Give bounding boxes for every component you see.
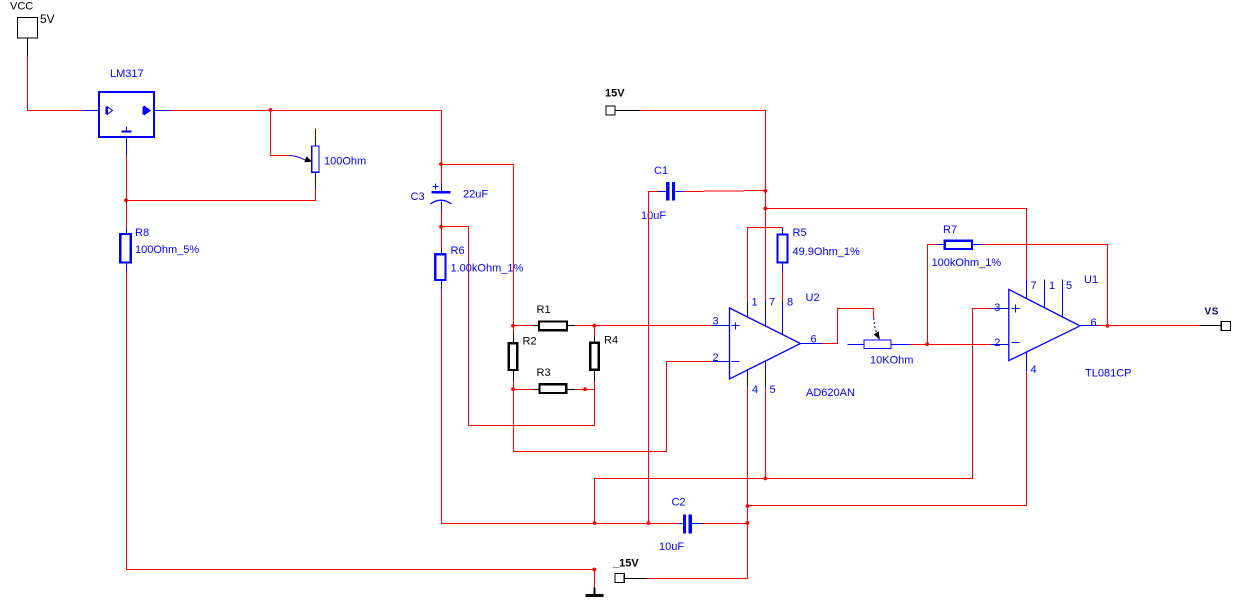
svg-text:1: 1 — [752, 297, 758, 309]
junction C2 right / -15V vertical — [746, 521, 750, 525]
junction bridge right bottom — [583, 387, 587, 391]
wire C1 left down to REF rail — [649, 192, 659, 524]
junction pot right / R7 left branch — [925, 342, 929, 346]
junction U1 output / feedback — [1106, 324, 1110, 328]
svg-text:R8: R8 — [135, 227, 149, 239]
voltage regulator LM317 — [99, 68, 154, 137]
wire R6 bottom down to REF rail corner — [442, 290, 678, 524]
svg-text:VCC: VCC — [10, 1, 33, 13]
svg-text:3: 3 — [994, 302, 1000, 314]
capacitor C2 10uF — [659, 497, 748, 554]
wire main vertical from LM317 output down to C3 — [441, 111, 443, 184]
wire +15V rail to U1 pin7 — [766, 209, 1027, 299]
wire C3 top branch to bridge left column — [442, 165, 514, 326]
svg-text:R7: R7 — [943, 224, 957, 236]
svg-text:100Ohm: 100Ohm — [324, 156, 366, 168]
wire U2 pin4 down to -15V — [649, 389, 748, 579]
svg-text:U1: U1 — [1084, 274, 1098, 286]
svg-text:7: 7 — [769, 297, 775, 309]
wire ground stem — [594, 570, 596, 588]
power terminal -15V — [612, 558, 649, 583]
resistor R6 1.00kOhm_1% — [435, 245, 523, 290]
junction ground node — [592, 568, 596, 572]
svg-text:15V: 15V — [605, 88, 625, 100]
wire R8 bottom to ground line — [127, 272, 595, 570]
potentiometer 100Ohm — [289, 129, 367, 190]
power terminal 15V — [605, 88, 625, 116]
capacitor C3 22uF polarized — [411, 184, 489, 211]
wire U1 output to VS — [1099, 325, 1222, 327]
wire R7 right to U1 output feedback — [982, 245, 1108, 326]
svg-text:U2: U2 — [806, 292, 820, 304]
op-amp U2 AD620AN — [713, 292, 855, 399]
svg-text:5: 5 — [770, 384, 776, 396]
wire junction down to potentiometer wiper — [271, 111, 289, 156]
svg-text:R3: R3 — [537, 367, 551, 379]
junction C1 column / C2 line — [647, 521, 651, 525]
svg-text:7: 7 — [1031, 280, 1037, 292]
junction C1 right / 15V vertical — [763, 189, 767, 193]
svg-text:AD620AN: AD620AN — [806, 387, 855, 399]
svg-text:10uF: 10uF — [659, 541, 684, 553]
junction bridge right top — [593, 324, 597, 328]
svg-text:R2: R2 — [523, 336, 537, 348]
capacitor C1 10uF — [641, 165, 766, 222]
resistor R1 (bridge top) — [514, 304, 595, 330]
wire U2 pin1 to R5 top — [748, 228, 783, 318]
svg-text:4: 4 — [1031, 364, 1037, 376]
resistor R5 49.9Ohm_1% — [778, 227, 860, 272]
wire C3 bottom branch to bridge bottom right — [442, 227, 595, 426]
junction LM317 output / wiper branch — [269, 108, 273, 112]
svg-text:3: 3 — [713, 316, 719, 328]
svg-text:C2: C2 — [672, 497, 686, 509]
svg-text:C3: C3 — [411, 191, 425, 203]
junction adj / pot bottom — [124, 198, 128, 202]
svg-text:100Ohm_5%: 100Ohm_5% — [135, 244, 199, 256]
wire 10KOhm right to U1 pin2 — [910, 344, 991, 346]
junction U2 pin5 / REF line — [763, 477, 767, 481]
svg-text:VS: VS — [1205, 307, 1220, 318]
svg-text:_15V: _15V — [612, 558, 639, 570]
svg-text:10KOhm: 10KOhm — [870, 355, 913, 367]
resistor R7 100kOhm_1% — [932, 224, 1002, 269]
svg-text:R1: R1 — [537, 304, 551, 316]
wire U2 pin5 REF down — [765, 389, 767, 479]
wire 15V vertical down to U2 pin7 — [765, 191, 767, 326]
wire U2 output to 10KOhm wiper — [822, 309, 874, 344]
op-amp U1 TL081CP — [991, 274, 1132, 380]
svg-text:49.9Ohm_1%: 49.9Ohm_1% — [793, 246, 860, 258]
svg-text:1: 1 — [1049, 280, 1055, 292]
svg-text:2: 2 — [713, 352, 719, 364]
svg-text:22uF: 22uF — [463, 189, 488, 201]
svg-text:100kOhm_1%: 100kOhm_1% — [932, 257, 1002, 269]
wire 15V to rail — [616, 111, 766, 191]
wire bridge left bottom to U2 pin2 — [514, 362, 713, 452]
svg-text:R6: R6 — [451, 245, 465, 257]
output terminal VS — [1205, 307, 1231, 331]
wire R7 left branch up — [928, 245, 937, 345]
wire REF line to U1 pin3 and down to C2 net — [595, 309, 991, 524]
wire U1 pin4 down to -15V net — [748, 372, 1027, 506]
svg-text:6: 6 — [811, 334, 817, 346]
resistor R8 100Ohm_5% — [120, 227, 199, 272]
wire C3 bottom to junction — [441, 211, 443, 249]
resistor R3 (bridge bottom) — [514, 367, 595, 393]
svg-text:5: 5 — [1066, 280, 1072, 292]
svg-text:8: 8 — [787, 297, 793, 309]
potentiometer 10KOhm — [848, 318, 914, 367]
svg-text:TL081CP: TL081CP — [1085, 368, 1131, 380]
wire VCC to LM317 input — [28, 39, 100, 111]
svg-text:10uF: 10uF — [641, 210, 666, 222]
svg-text:4: 4 — [752, 384, 758, 396]
svg-text:1.00kOhm_1%: 1.00kOhm_1% — [451, 263, 524, 275]
wire LM317 adj pin down — [126, 138, 128, 228]
svg-text:5V: 5V — [40, 12, 55, 26]
wire bridge right top to U2 pin3 — [595, 325, 713, 327]
junction U2 pin4 / U1 pin4 line — [746, 504, 750, 508]
resistor R2 (bridge left) — [509, 326, 537, 390]
wire potentiometer bottom to adj node — [127, 190, 316, 201]
svg-text:6: 6 — [1091, 317, 1097, 329]
wire R5 bottom to U2 pin8 — [782, 272, 784, 335]
wire LM317 output to node x441 — [155, 110, 442, 112]
junction bridge left top — [511, 324, 515, 328]
svg-text:R5: R5 — [793, 227, 807, 239]
junction +15V rail branch — [763, 207, 767, 211]
svg-text:2: 2 — [994, 337, 1000, 349]
svg-text:R4: R4 — [604, 335, 618, 347]
power terminal VCC 5V — [10, 1, 55, 39]
junction bridge left bottom — [511, 387, 515, 391]
junction C3 top / bridge feed branch — [439, 162, 443, 166]
resistor R4 (bridge right) — [590, 326, 618, 390]
junction REF column / C2 line — [593, 521, 597, 525]
ground — [586, 588, 604, 596]
junction C3 bottom / bridge bottom branch — [439, 225, 443, 229]
svg-text:LM317: LM317 — [110, 68, 144, 80]
svg-text:C1: C1 — [654, 165, 668, 177]
